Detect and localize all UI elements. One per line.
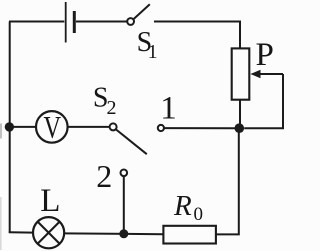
svg-text:R: R bbox=[173, 190, 192, 222]
junction dot left bbox=[5, 122, 14, 131]
contact node 1 bbox=[158, 125, 164, 131]
rheostat wiper arrow bbox=[250, 70, 283, 78]
bottom wire: left corner to lamp bbox=[10, 232, 33, 233]
svg-text:1: 1 bbox=[160, 91, 177, 127]
svg-text:0: 0 bbox=[194, 204, 204, 225]
svg-text:S1: S1 bbox=[137, 27, 158, 63]
wire node 1 to right junction bbox=[164, 127, 235, 129]
battery bbox=[66, 2, 75, 43]
bottom wire: lamp to resistor R0 bbox=[64, 232, 163, 235]
resistor R0 body bbox=[163, 226, 216, 244]
svg-text:V: V bbox=[44, 109, 62, 145]
lamp L bbox=[33, 217, 64, 248]
wire voltmeter to switch S2 bbox=[68, 126, 110, 128]
wiper return wire to right junction bbox=[244, 74, 283, 128]
svg-text:2: 2 bbox=[96, 158, 112, 194]
wire node 2 down to bottom wire bbox=[123, 176, 125, 234]
scan artifact: left edge smudge lower bbox=[0, 197, 2, 250]
left vertical wire bbox=[9, 22, 11, 233]
svg-text:S2: S2 bbox=[93, 83, 117, 120]
switch S2 pivot bbox=[110, 123, 117, 130]
junction dot bottom (node 2 to bottom wire) bbox=[119, 229, 128, 238]
scan artifact: left edge smudge near middle junction bbox=[0, 124, 2, 139]
wire S1 to top-right corner bbox=[154, 22, 240, 49]
wire top-left segment bbox=[10, 22, 64, 23]
rheostat P body bbox=[232, 48, 250, 99]
wire right junction down to bottom-right corner bbox=[216, 128, 239, 234]
switch S1 pivot bbox=[127, 18, 134, 25]
wire battery to switch S1 bbox=[76, 21, 127, 23]
middle wire: left junction to voltmeter bbox=[10, 126, 36, 128]
contact node 2 bbox=[121, 170, 128, 177]
svg-text:L: L bbox=[40, 183, 60, 219]
voltmeter V bbox=[36, 109, 68, 145]
switch S1 blade bbox=[133, 4, 149, 19]
switch S2 blade bbox=[116, 130, 147, 155]
svg-text:P: P bbox=[256, 37, 274, 73]
junction dot right bbox=[235, 123, 245, 133]
wire rheostat bottom to right junction bbox=[239, 100, 241, 129]
